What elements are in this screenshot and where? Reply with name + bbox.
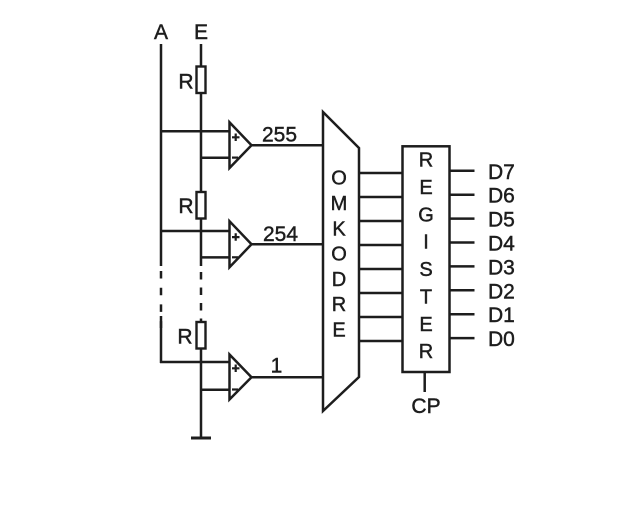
wire bus line 2: [359, 292, 403, 295]
svg-text:R: R: [419, 341, 433, 363]
wire ladder node1 (R1 to R2): [200, 93, 203, 192]
svg-text:A: A: [154, 21, 168, 44]
svg-text:D2: D2: [488, 280, 515, 303]
svg-text:CP: CP: [411, 395, 440, 418]
wire bus line 0: [359, 340, 403, 343]
svg-text:D3: D3: [488, 256, 515, 279]
encoder block U4 (OMKODRE): [323, 112, 359, 411]
wire comparator U3 - input: [201, 388, 230, 391]
wire CP input: [423, 372, 426, 392]
svg-text:E: E: [194, 21, 208, 44]
svg-text:E: E: [419, 314, 432, 336]
wire comparator U1 + input: [160, 130, 230, 133]
svg-text:G: G: [418, 204, 434, 226]
wire bus line 1: [359, 316, 403, 319]
svg-text:D4: D4: [488, 233, 515, 256]
op-amp U2 minus sign: [232, 256, 238, 258]
wire output D4: [450, 241, 475, 244]
svg-text:K: K: [332, 218, 346, 240]
register U5 vertical label REGISTER: [418, 150, 434, 363]
svg-text:254: 254: [263, 223, 298, 246]
svg-text:R: R: [178, 195, 193, 218]
wire A vertical dashed: [160, 271, 163, 328]
op-amp U3 (comparator): [230, 355, 252, 400]
wire E to R1: [200, 44, 203, 67]
wire output D0: [450, 337, 475, 340]
wire output D2: [450, 289, 475, 292]
register block U5: [403, 146, 450, 372]
svg-text:D6: D6: [488, 185, 515, 208]
wire output D3: [450, 265, 475, 268]
svg-text:T: T: [420, 286, 432, 308]
op-amp U1 (comparator): [230, 122, 252, 168]
wire bus line 3: [359, 268, 403, 271]
svg-text:255: 255: [262, 124, 297, 147]
wire comparator U2 - input: [201, 256, 230, 259]
wire bus line 7 (encoder to register): [359, 172, 403, 175]
wire comparator U2 + input: [160, 230, 230, 233]
wire U1 output: [252, 144, 324, 147]
wire U3 output: [252, 376, 324, 379]
svg-text:I: I: [423, 232, 429, 254]
svg-text:E: E: [419, 177, 432, 199]
svg-text:E: E: [332, 320, 345, 342]
op-amp U3 plus sign: [232, 365, 240, 373]
wire bus line 4: [359, 244, 403, 247]
wire output D7: [450, 170, 475, 173]
svg-text:R: R: [419, 150, 433, 172]
svg-text:R: R: [332, 294, 346, 316]
wire output D5: [450, 217, 475, 220]
svg-text:O: O: [331, 244, 347, 266]
wire ladder node2 solid: [200, 219, 203, 267]
resistor R3: [197, 322, 206, 349]
svg-text:M: M: [331, 193, 348, 215]
svg-text:R: R: [177, 326, 192, 349]
wire ladder dashed: [200, 272, 203, 322]
op-amp U2 plus sign: [232, 233, 240, 241]
svg-text:D5: D5: [488, 209, 515, 232]
op-amp U1 minus sign: [232, 157, 238, 159]
op-amp U1 plus sign: [232, 134, 240, 142]
resistor R2: [197, 192, 206, 219]
wire U2 output: [252, 243, 324, 246]
wire comparator U1 - input: [201, 157, 230, 160]
svg-text:D1: D1: [488, 304, 515, 327]
wire bus line 5: [359, 220, 403, 223]
svg-text:R: R: [178, 71, 193, 94]
svg-text:D: D: [332, 269, 346, 291]
wire comparator U3 + input: [160, 361, 230, 364]
wire output D6: [450, 193, 475, 196]
wire A vertical solid bottom: [160, 316, 163, 363]
svg-text:1: 1: [271, 355, 283, 378]
wire A vertical solid top: [160, 44, 163, 266]
encoder U4 vertical label OMKODRE: [331, 168, 348, 342]
wire output D1: [450, 313, 475, 316]
op-amp U3 minus sign: [232, 388, 238, 390]
svg-text:D0: D0: [488, 328, 515, 351]
svg-text:S: S: [419, 259, 432, 281]
wire ladder bottom to ground: [200, 349, 203, 439]
svg-text:O: O: [331, 168, 347, 190]
resistor R1: [197, 67, 206, 94]
svg-text:D7: D7: [488, 161, 515, 184]
wire bus line 6: [359, 196, 403, 199]
op-amp U2 (comparator): [230, 221, 252, 267]
ground: [191, 437, 211, 440]
